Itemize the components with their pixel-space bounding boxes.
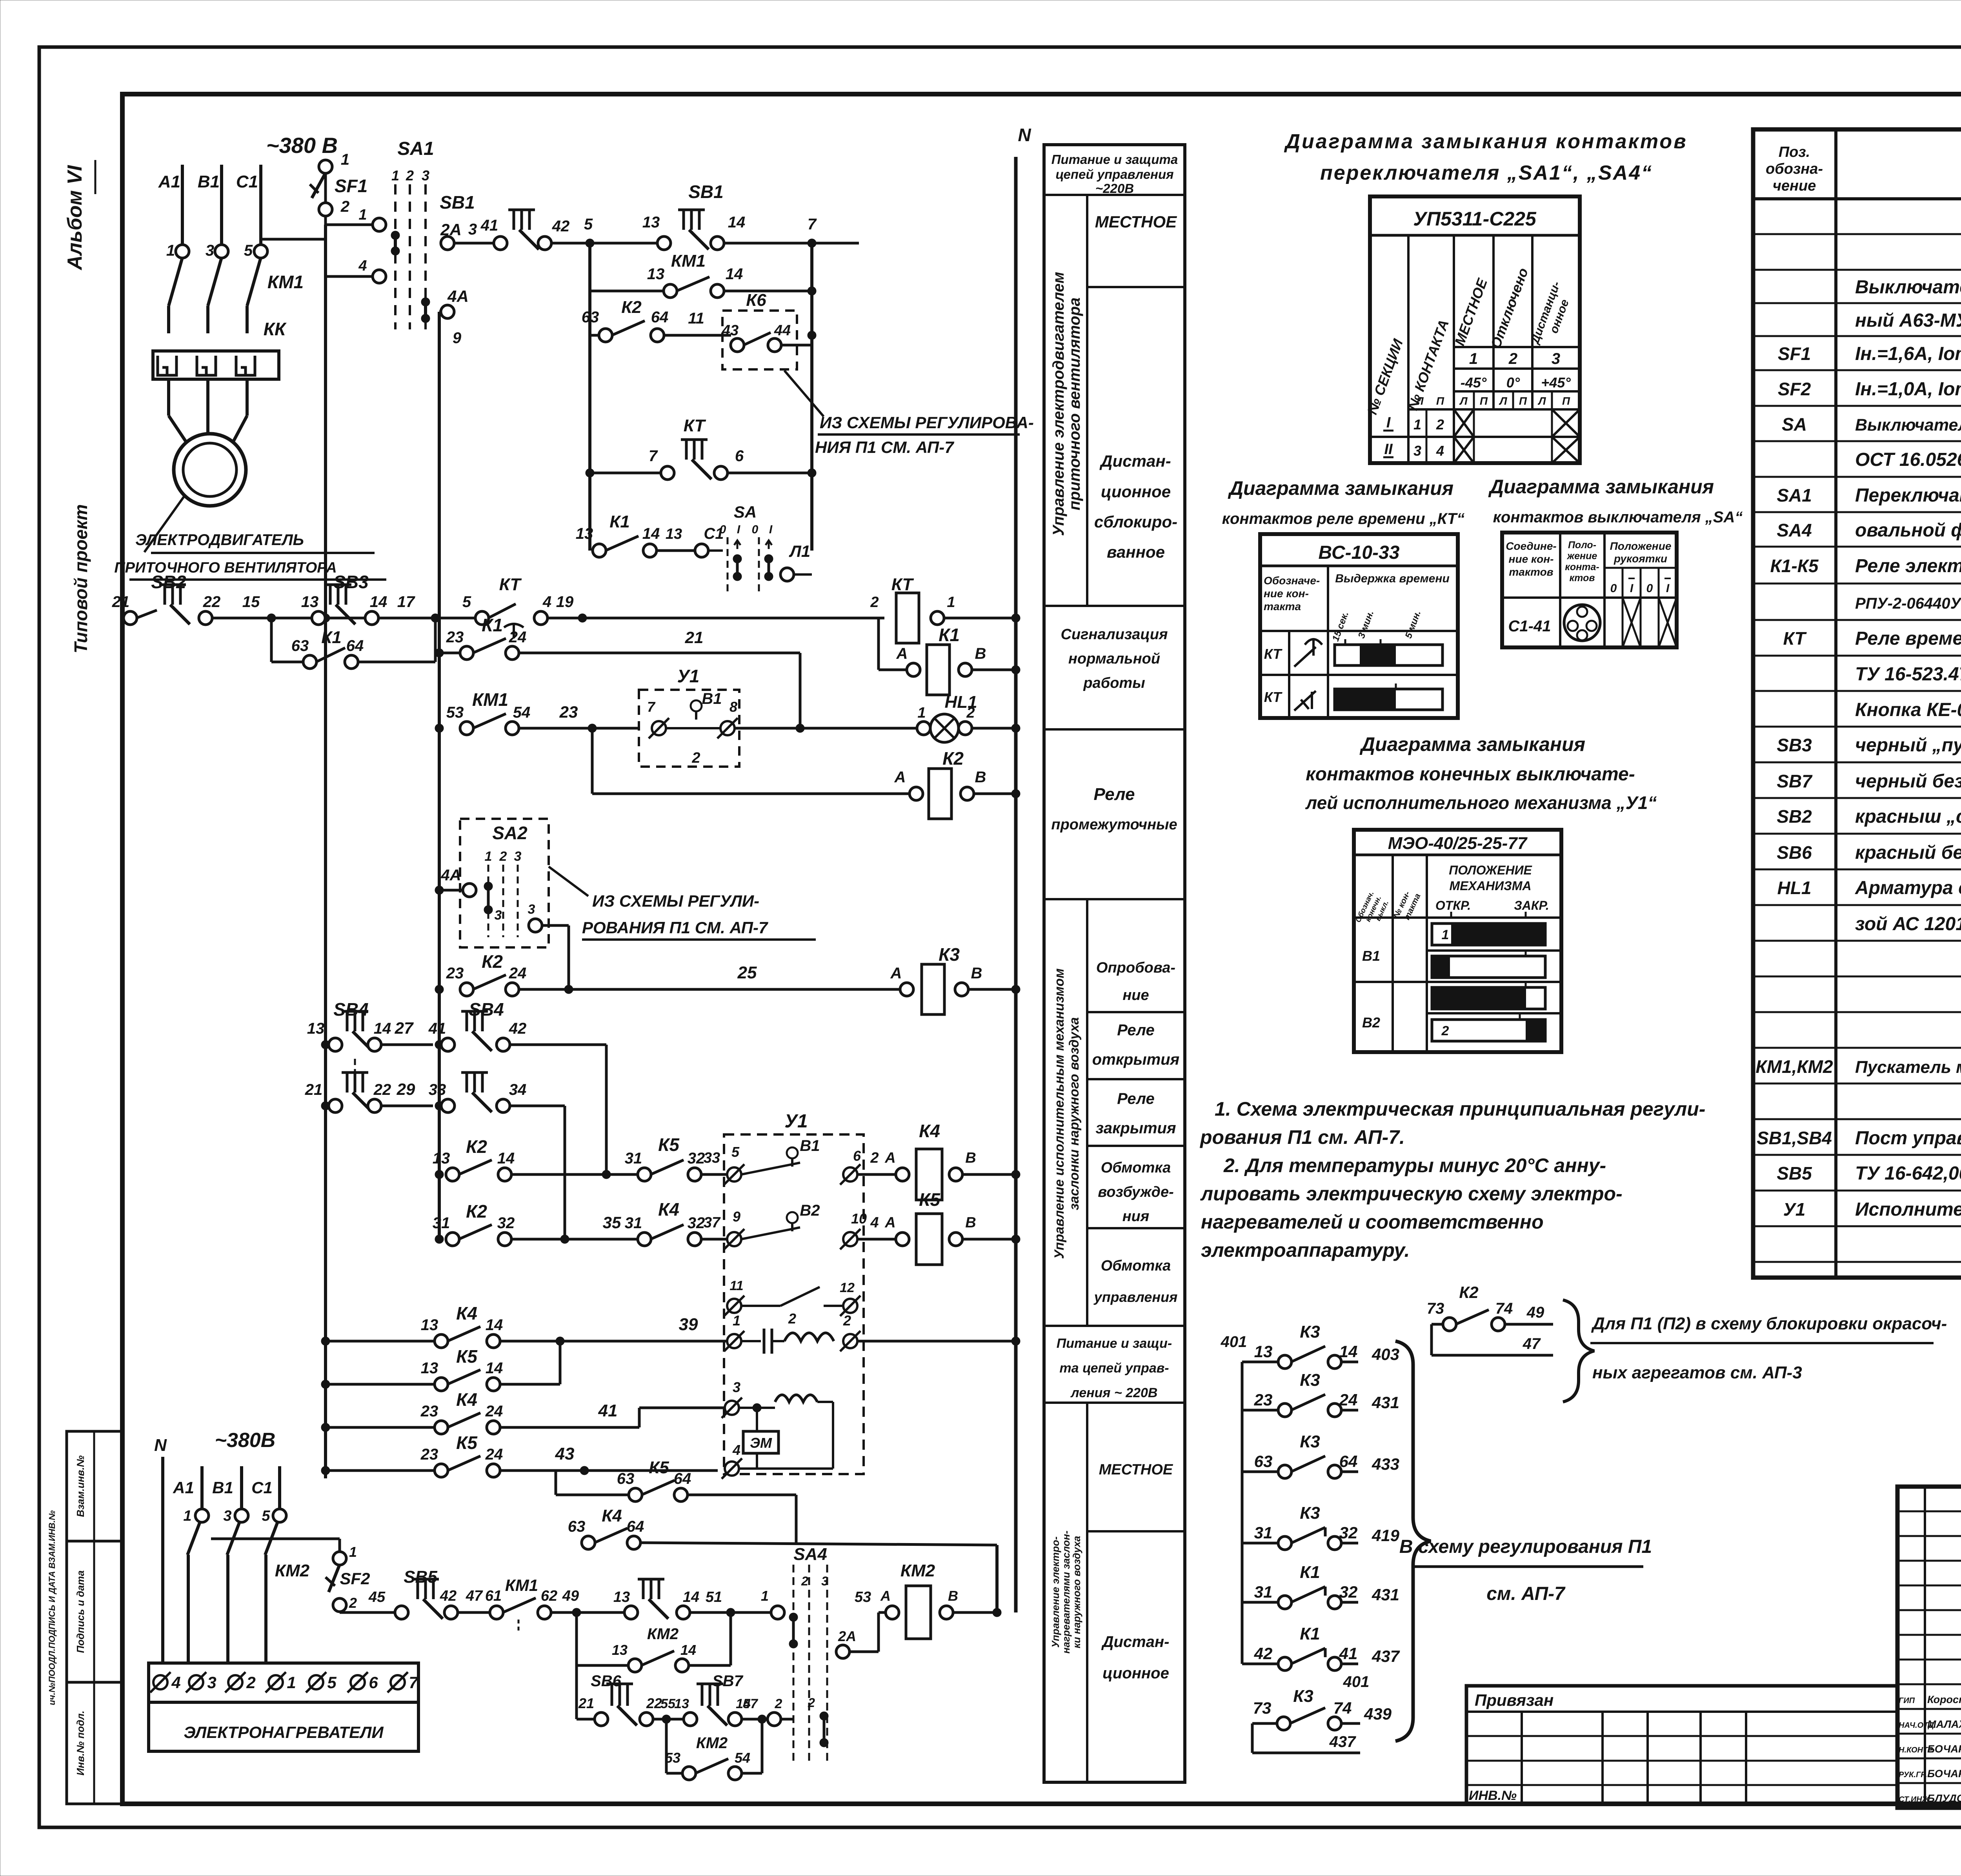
svg-text:ОСТ 16.0526.001-77: ОСТ 16.0526.001-77 xyxy=(1855,449,1961,470)
svg-text:42: 42 xyxy=(1254,1644,1273,1663)
svg-text:А1: А1 xyxy=(173,1478,194,1497)
svg-text:11: 11 xyxy=(688,310,704,327)
svg-text:К1-К5: К1-К5 xyxy=(1770,556,1819,576)
svg-text:2: 2 xyxy=(843,1312,851,1329)
svg-text:3: 3 xyxy=(223,1508,231,1524)
svg-text:Реле времени ВС-10-33,~220В,: Реле времени ВС-10-33,~220В, 50 Гц xyxy=(1855,628,1961,649)
svg-text:Дистан-: Дистан- xyxy=(1099,452,1171,470)
svg-text:П: П xyxy=(1562,395,1570,407)
svg-text:ич.№ПООДЛ.ПОДПИСЬ И ДАТА ВЗАМ.: ич.№ПООДЛ.ПОДПИСЬ И ДАТА ВЗАМ.ИНВ.№ xyxy=(47,1510,57,1705)
svg-text:SВ7: SВ7 xyxy=(712,1672,744,1690)
svg-text:14: 14 xyxy=(680,1642,696,1658)
svg-text:57: 57 xyxy=(743,1696,759,1711)
svg-text:4А: 4А xyxy=(440,867,461,884)
svg-text:У1: У1 xyxy=(1783,1199,1806,1220)
svg-text:черный „пуск“: черный „пуск“ xyxy=(1855,735,1961,756)
svg-text:К4: К4 xyxy=(602,1506,622,1525)
svg-text:Коростелев: Коростелев xyxy=(1927,1694,1961,1705)
svg-text:конта-: конта- xyxy=(1565,562,1599,573)
svg-text:К5: К5 xyxy=(456,1432,478,1453)
svg-text:37: 37 xyxy=(704,1214,721,1231)
svg-text:401: 401 xyxy=(1343,1673,1370,1691)
svg-text:рукоятки: рукоятки xyxy=(1614,553,1667,565)
svg-text:К2: К2 xyxy=(482,951,503,972)
svg-text:13: 13 xyxy=(421,1360,438,1377)
svg-text:439: 439 xyxy=(1364,1705,1392,1723)
svg-text:53: 53 xyxy=(446,704,464,721)
svg-text:I: I xyxy=(737,523,740,536)
svg-text:14: 14 xyxy=(1339,1342,1358,1361)
diagram SA table xyxy=(1502,533,1677,647)
svg-text:В2: В2 xyxy=(1362,1014,1380,1031)
svg-text:74: 74 xyxy=(1495,1300,1513,1317)
svg-text:красный без надписи: красный без надписи xyxy=(1855,842,1961,863)
svg-text:Поло-: Поло- xyxy=(1568,540,1596,551)
svg-text:ки наружного воздуха: ки наружного воздуха xyxy=(1071,1536,1082,1649)
left margin box vzam inv xyxy=(67,1431,122,1541)
svg-text:N: N xyxy=(154,1436,167,1455)
svg-text:35: 35 xyxy=(603,1213,621,1232)
svg-text:РУК.ГР.: РУК.ГР. xyxy=(1899,1771,1927,1779)
svg-text:41: 41 xyxy=(428,1020,446,1037)
svg-text:ПОЛОЖЕНИЕ: ПОЛОЖЕНИЕ xyxy=(1449,863,1532,877)
svg-text:22: 22 xyxy=(203,593,221,611)
svg-text:КМ1: КМ1 xyxy=(472,689,508,710)
svg-text:2: 2 xyxy=(808,1696,815,1710)
svg-text:21: 21 xyxy=(112,593,130,611)
svg-text:4А: 4А xyxy=(447,287,469,305)
label upravlenie electronagrevatelyami xyxy=(1086,1403,1088,1782)
svg-text:К5: К5 xyxy=(919,1189,940,1210)
svg-text:ления ~ 220В: ления ~ 220В xyxy=(1070,1385,1158,1400)
svg-text:SB3: SB3 xyxy=(333,572,369,592)
svg-text:3: 3 xyxy=(514,849,522,864)
svg-text:ния: ния xyxy=(1122,1208,1150,1225)
svg-text:овальной формы УП5311-С225, ТУ: овальной формы УП5311-С225, ТУ16-524.074… xyxy=(1855,520,1961,541)
svg-text:7: 7 xyxy=(808,216,817,233)
svg-text:13: 13 xyxy=(613,1589,630,1605)
label upravlenie ispolnitelnym mehanizmom xyxy=(1086,899,1088,1326)
svg-text:1: 1 xyxy=(1469,350,1478,367)
svg-text:5: 5 xyxy=(262,1508,270,1524)
svg-text:В: В xyxy=(948,1588,958,1604)
diagram U1 table xyxy=(1354,830,1561,1052)
svg-text:SA: SA xyxy=(1782,414,1807,434)
svg-text:63: 63 xyxy=(291,637,309,654)
svg-text:Обозначе-: Обозначе- xyxy=(1264,574,1320,587)
svg-text:зой АС 12013У2, ~220В, ТУ16-53: зой АС 12013У2, ~220В, ТУ16-535.930-76 xyxy=(1855,914,1961,934)
heaters label box xyxy=(149,1702,418,1751)
svg-text:49: 49 xyxy=(1526,1304,1544,1321)
svg-text:Переключатель универсальный с: Переключатель универсальный с рукояткой xyxy=(1855,485,1961,506)
svg-text:К1: К1 xyxy=(939,625,960,645)
svg-text:53: 53 xyxy=(855,1589,871,1605)
svg-text:SB1,SB4: SB1,SB4 xyxy=(1757,1128,1832,1148)
svg-text:контактов конечных выключате-: контактов конечных выключате- xyxy=(1306,764,1635,785)
svg-text:7: 7 xyxy=(649,447,658,465)
svg-text:41: 41 xyxy=(480,217,498,234)
svg-text:Арматура светосигнальная с зел: Арматура светосигнальная с зеленой лин- xyxy=(1855,878,1961,898)
svg-text:8: 8 xyxy=(729,699,737,715)
svg-text:33: 33 xyxy=(704,1150,720,1166)
svg-text:А: А xyxy=(884,1214,895,1231)
svg-text:К1: К1 xyxy=(482,615,503,635)
svg-text:Диаграмма замыкания контактов: Диаграмма замыкания контактов xyxy=(1284,130,1687,153)
svg-text:тактов: тактов xyxy=(1509,566,1553,578)
button SB4 13-14 xyxy=(321,1040,330,1049)
svg-text:нормальной: нормальной xyxy=(1068,651,1160,667)
svg-text:ИЗ СХЕМЫ РЕГУЛИ-: ИЗ СХЕМЫ РЕГУЛИ- xyxy=(592,892,759,910)
svg-text:Управление электро-: Управление электро- xyxy=(1050,1536,1061,1648)
svg-text:Реле: Реле xyxy=(1093,785,1135,804)
svg-text:6: 6 xyxy=(853,1148,861,1164)
svg-text:электроаппаратуру.: электроаппаратуру. xyxy=(1201,1239,1410,1261)
svg-text:Питание и защита: Питание и защита xyxy=(1051,152,1178,167)
svg-text:SA2: SA2 xyxy=(492,823,528,843)
svg-text:SB1: SB1 xyxy=(688,182,723,202)
svg-text:14: 14 xyxy=(642,525,660,542)
svg-text:ние кон-: ние кон- xyxy=(1264,587,1309,600)
svg-text:31: 31 xyxy=(1254,1583,1273,1601)
svg-text:Исполнительный механизм МЭО-40: Исполнительный механизм МЭО-40/25-25-77 xyxy=(1855,1199,1961,1220)
svg-text:I: I xyxy=(1666,582,1670,595)
svg-text:0°: 0° xyxy=(1506,374,1520,391)
svg-text:КМ2: КМ2 xyxy=(900,1561,935,1580)
svg-text:14: 14 xyxy=(486,1316,503,1334)
svg-text:лей исполнительного механизма: лей исполнительного механизма „У1“ xyxy=(1305,793,1657,813)
svg-text:ние кон-: ние кон- xyxy=(1509,553,1554,565)
svg-text:приточного вентилятора: приточного вентилятора xyxy=(1066,298,1083,511)
svg-text:3: 3 xyxy=(1552,350,1560,367)
svg-text:14: 14 xyxy=(726,265,743,283)
svg-text:С1: С1 xyxy=(251,1478,273,1497)
svg-text:КМ1: КМ1 xyxy=(505,1576,538,1594)
svg-text:Подпись и дата: Подпись и дата xyxy=(75,1571,86,1653)
svg-text:SB7: SB7 xyxy=(1777,771,1813,791)
svg-text:403: 403 xyxy=(1372,1345,1399,1363)
svg-text:КТ: КТ xyxy=(1783,628,1807,649)
contact K2 13-14 row xyxy=(435,1170,444,1179)
svg-text:Л: Л xyxy=(1499,395,1507,407)
svg-text:РОВАНИЯ П1 СМ. АП-7: РОВАНИЯ П1 СМ. АП-7 xyxy=(582,918,768,937)
svg-text:12: 12 xyxy=(840,1280,855,1295)
contact K2 23-24 row 25 xyxy=(435,985,444,994)
svg-text:Опробова-: Опробова- xyxy=(1096,960,1175,976)
svg-text:ЭЛЕКТРОНАГРЕВАТЕЛИ: ЭЛЕКТРОНАГРЕВАТЕЛИ xyxy=(184,1723,384,1741)
svg-text:контактов выключателя „SA“: контактов выключателя „SA“ xyxy=(1493,509,1743,526)
svg-text:К1: К1 xyxy=(1300,1563,1320,1582)
svg-text:1: 1 xyxy=(1442,927,1449,942)
wire ladder right vertical xyxy=(810,243,813,551)
svg-text:64: 64 xyxy=(346,637,364,654)
svg-text:1: 1 xyxy=(917,705,926,721)
svg-text:64: 64 xyxy=(674,1470,691,1487)
title block stamp frame xyxy=(1897,1487,1961,1808)
svg-text:В1: В1 xyxy=(198,172,220,191)
svg-text:нагревателей и соответстве: нагревателей и соответственно xyxy=(1201,1211,1544,1233)
svg-text:Привязан: Привязан xyxy=(1475,1691,1554,1709)
svg-text:Диаграмма замыкания: Диаграмма замыкания xyxy=(1488,476,1714,498)
svg-text:Поз.: Поз. xyxy=(1779,144,1810,160)
svg-text:34: 34 xyxy=(509,1081,527,1098)
svg-text:промежуточные: промежуточные xyxy=(1051,816,1177,833)
svg-text:14: 14 xyxy=(683,1589,699,1605)
button SB4 41-42 xyxy=(435,1040,444,1049)
svg-text:13: 13 xyxy=(666,526,682,542)
svg-text:КТ: КТ xyxy=(499,575,522,594)
relay coil K2 xyxy=(591,728,594,794)
svg-text:HL1: HL1 xyxy=(1777,878,1812,898)
svg-text:Обмотка: Обмотка xyxy=(1101,1258,1171,1274)
svg-text:47: 47 xyxy=(1523,1335,1541,1352)
svg-text:ционное: ционное xyxy=(1102,1665,1169,1682)
svg-text:КМ2: КМ2 xyxy=(647,1625,679,1643)
svg-text:2: 2 xyxy=(246,1673,255,1692)
limit switch U1 big dashed box xyxy=(724,1134,864,1474)
svg-text:ние: ние xyxy=(1122,987,1149,1003)
svg-text:3: 3 xyxy=(733,1379,740,1395)
svg-text:SB4: SB4 xyxy=(333,999,368,1020)
relay coil KT xyxy=(896,593,919,643)
button SB4 21-22 xyxy=(321,1102,330,1110)
contact KM2 13-14 xyxy=(575,1612,578,1719)
svg-text:К1: К1 xyxy=(609,512,630,531)
svg-text:23: 23 xyxy=(559,703,578,721)
svg-text:В: В xyxy=(971,965,982,982)
svg-text:жение: жение xyxy=(1566,551,1597,562)
svg-text:МАЛАХОВ: МАЛАХОВ xyxy=(1927,1718,1961,1730)
svg-text:SF1: SF1 xyxy=(335,176,367,196)
svg-text:~220В: ~220В xyxy=(1095,181,1134,196)
svg-text:13: 13 xyxy=(674,1696,689,1711)
svg-text:41: 41 xyxy=(598,1401,618,1420)
svg-text:К4: К4 xyxy=(456,1303,477,1323)
svg-text:К2: К2 xyxy=(466,1201,487,1222)
svg-text:К3: К3 xyxy=(1300,1371,1320,1390)
svg-text:1: 1 xyxy=(183,1508,191,1524)
svg-text:МЕСТНОЕ: МЕСТНОЕ xyxy=(1095,213,1177,231)
svg-text:РПУ-2-06440У3А, 4з.+4р.,~220В,: РПУ-2-06440У3А, 4з.+4р.,~220В, 50Гц, ТУ1… xyxy=(1855,595,1961,612)
svg-text:ИНВ.№: ИНВ.№ xyxy=(1469,1788,1517,1803)
svg-text:2: 2 xyxy=(870,594,879,611)
svg-text:9: 9 xyxy=(453,329,462,347)
svg-text:4: 4 xyxy=(542,593,551,611)
svg-text:SB5: SB5 xyxy=(1777,1163,1812,1183)
svg-text:та цепей управ-: та цепей управ- xyxy=(1059,1361,1169,1376)
svg-text:13: 13 xyxy=(1254,1342,1273,1361)
svg-text:0: 0 xyxy=(720,523,726,536)
svg-text:В: В xyxy=(965,1150,976,1166)
svg-text:27: 27 xyxy=(395,1019,414,1037)
svg-text:К6: К6 xyxy=(746,291,766,310)
svg-text:13: 13 xyxy=(642,214,660,231)
svg-text:ЭМ: ЭМ xyxy=(750,1435,772,1451)
svg-text:КМ1: КМ1 xyxy=(671,251,706,271)
svg-text:Реле: Реле xyxy=(1117,1022,1155,1039)
svg-text:29: 29 xyxy=(397,1080,415,1098)
svg-text:63: 63 xyxy=(617,1470,635,1487)
svg-text:5: 5 xyxy=(327,1673,337,1692)
svg-text:КТ: КТ xyxy=(891,575,914,594)
svg-text:см. АП-7: см. АП-7 xyxy=(1486,1583,1566,1604)
breaker SF2 xyxy=(211,1538,340,1540)
svg-text:73: 73 xyxy=(1253,1699,1272,1717)
K3 ladder left bus xyxy=(1241,1362,1244,1664)
svg-text:1: 1 xyxy=(1413,416,1421,433)
svg-text:14: 14 xyxy=(486,1360,503,1377)
svg-text:5: 5 xyxy=(244,242,253,259)
svg-text:2: 2 xyxy=(691,750,700,766)
svg-text:КМ1: КМ1 xyxy=(267,272,304,292)
svg-text:4: 4 xyxy=(171,1673,180,1692)
svg-text:54: 54 xyxy=(735,1750,750,1766)
svg-text:61: 61 xyxy=(485,1588,502,1604)
svg-text:А: А xyxy=(884,1150,895,1166)
svg-text:13: 13 xyxy=(307,1020,325,1037)
svg-text:I: I xyxy=(1630,582,1634,595)
svg-text:МЭО-40/25-25-77: МЭО-40/25-25-77 xyxy=(1388,834,1528,853)
svg-text:6: 6 xyxy=(735,447,744,465)
svg-text:SA: SA xyxy=(734,503,757,521)
svg-text:7: 7 xyxy=(409,1673,418,1692)
svg-text:КТ: КТ xyxy=(684,416,706,435)
svg-text:5: 5 xyxy=(731,1144,740,1160)
svg-text:10: 10 xyxy=(851,1211,867,1227)
svg-text:73: 73 xyxy=(1427,1300,1444,1317)
svg-text:SA4: SA4 xyxy=(793,1545,827,1564)
K3 ladder brace xyxy=(1395,1341,1431,1741)
svg-text:К5: К5 xyxy=(658,1134,680,1155)
svg-text:55: 55 xyxy=(660,1696,676,1711)
contact K4 13-14 row 39 xyxy=(321,1337,330,1345)
svg-text:SA4: SA4 xyxy=(1777,520,1812,540)
svg-text:0: 0 xyxy=(752,523,759,536)
svg-text:КТ: КТ xyxy=(1264,689,1283,705)
contact KM2 53-54 xyxy=(665,1719,668,1773)
svg-text:~380В: ~380В xyxy=(215,1429,276,1452)
component table frame xyxy=(1753,129,1961,1278)
svg-text:закрытия: закрытия xyxy=(1095,1120,1176,1137)
svg-text:красныш „стоп“: красныш „стоп“ xyxy=(1855,806,1961,827)
svg-text:В: В xyxy=(965,1214,976,1231)
svg-text:3: 3 xyxy=(495,908,502,923)
svg-text:К2: К2 xyxy=(942,748,964,769)
motor callout xyxy=(144,496,184,552)
svg-text:В: В xyxy=(975,645,986,662)
svg-text:В: В xyxy=(975,769,986,786)
svg-text:П: П xyxy=(1436,395,1444,407)
svg-text:СТ.ИНЖ.: СТ.ИНЖ. xyxy=(1899,1795,1932,1804)
privyazan table xyxy=(1466,1686,1897,1804)
wire ladder left vertical xyxy=(588,243,591,551)
svg-text:14: 14 xyxy=(374,1020,391,1037)
svg-text:23: 23 xyxy=(420,1446,438,1463)
svg-text:ТУ 16-642,006-83: ТУ 16-642,006-83 xyxy=(1855,1163,1961,1184)
svg-text:А: А xyxy=(890,965,902,982)
svg-text:К4: К4 xyxy=(658,1199,679,1220)
svg-text:1. Схема электрическая принцип: 1. Схема электрическая принципиальная ре… xyxy=(1215,1098,1705,1120)
svg-text:22: 22 xyxy=(373,1081,391,1098)
svg-text:рования П1 см. АП-7.: рования П1 см. АП-7. xyxy=(1199,1126,1405,1148)
svg-text:24: 24 xyxy=(485,1403,503,1420)
svg-text:К3: К3 xyxy=(1293,1687,1313,1706)
svg-text:Л: Л xyxy=(1537,395,1546,407)
svg-text:Пост управления кнопочный ПКЕ2: Пост управления кнопочный ПКЕ212-2У3 xyxy=(1855,1128,1961,1149)
svg-text:31: 31 xyxy=(433,1214,450,1232)
svg-text:ВС-10-33: ВС-10-33 xyxy=(1319,542,1400,563)
svg-text:7: 7 xyxy=(647,699,656,715)
svg-text:3: 3 xyxy=(1413,443,1421,459)
svg-text:В схему регулирования П1: В схему регулирования П1 xyxy=(1399,1536,1652,1557)
svg-text:КМ2: КМ2 xyxy=(275,1561,310,1580)
svg-text:К4: К4 xyxy=(919,1121,940,1141)
svg-text:ный А63-МУ3,~220В, ТУ16-522.11: ный А63-МУ3,~220В, ТУ16-522.110-74 xyxy=(1855,310,1961,331)
svg-text:открытия: открытия xyxy=(1092,1051,1179,1068)
svg-text:1: 1 xyxy=(391,167,399,184)
svg-text:Диаграмма замыкания: Диаграмма замыкания xyxy=(1228,477,1453,499)
svg-text:31: 31 xyxy=(625,1214,642,1232)
svg-text:У1: У1 xyxy=(677,666,700,686)
svg-text:2: 2 xyxy=(801,1574,808,1588)
svg-text:13: 13 xyxy=(576,525,593,542)
svg-text:32: 32 xyxy=(497,1214,515,1232)
svg-text:31: 31 xyxy=(1254,1523,1273,1542)
svg-text:45: 45 xyxy=(368,1589,386,1605)
svg-text:63: 63 xyxy=(582,309,599,326)
svg-text:БОЧАРОВА: БОЧАРОВА xyxy=(1927,1768,1961,1780)
svg-text:15: 15 xyxy=(242,593,260,611)
wire N bus xyxy=(1014,157,1018,1612)
svg-text:КМ2: КМ2 xyxy=(696,1734,728,1752)
svg-text:МЕСТНОЕ: МЕСТНОЕ xyxy=(1099,1462,1173,1478)
svg-text:Дистан-: Дистан- xyxy=(1101,1633,1170,1651)
svg-text:9: 9 xyxy=(733,1209,740,1225)
svg-text:2: 2 xyxy=(406,167,414,184)
diagram SA1 SA4 table xyxy=(1370,196,1580,463)
svg-text:контактов реле времени „КТ“: контактов реле времени „КТ“ xyxy=(1222,510,1464,527)
svg-text:433: 433 xyxy=(1372,1455,1399,1473)
svg-text:~380 В: ~380 В xyxy=(266,133,338,158)
svg-text:ктов: ктов xyxy=(1570,573,1595,584)
svg-text:14: 14 xyxy=(728,214,746,231)
svg-text:К2: К2 xyxy=(1459,1283,1478,1302)
svg-text:5: 5 xyxy=(584,216,593,233)
svg-text:21: 21 xyxy=(578,1695,594,1711)
svg-text:24: 24 xyxy=(485,1446,503,1463)
svg-text:ных агрегатов см. АП-3: ных агрегатов см. АП-3 xyxy=(1592,1363,1802,1382)
svg-text:431: 431 xyxy=(1372,1585,1399,1604)
svg-text:К3: К3 xyxy=(1300,1432,1320,1451)
svg-text:24: 24 xyxy=(509,965,527,982)
svg-text:6: 6 xyxy=(369,1673,378,1692)
svg-text:2: 2 xyxy=(340,198,349,215)
svg-text:0: 0 xyxy=(1646,582,1653,595)
svg-text:переключателя „SA1“, „SA4“: переключателя „SA1“, „SA4“ xyxy=(1320,162,1653,184)
svg-text:1: 1 xyxy=(341,151,349,168)
svg-text:Управление исполнительным меха: Управление исполнительным механизмом xyxy=(1052,969,1067,1259)
svg-text:3: 3 xyxy=(207,1673,216,1692)
svg-text:32: 32 xyxy=(1339,1583,1358,1601)
svg-text:33: 33 xyxy=(429,1081,446,1098)
section label column frame xyxy=(1044,145,1185,1782)
svg-text:+45°: +45° xyxy=(1541,374,1571,391)
svg-text:SF2: SF2 xyxy=(1778,379,1811,399)
limit switch U1 B1 7-8 box xyxy=(639,690,739,767)
svg-text:1: 1 xyxy=(947,594,955,611)
svg-text:25: 25 xyxy=(737,963,757,982)
svg-text:возбужде-: возбужде- xyxy=(1098,1184,1174,1200)
svg-text:чение: чение xyxy=(1773,178,1816,194)
